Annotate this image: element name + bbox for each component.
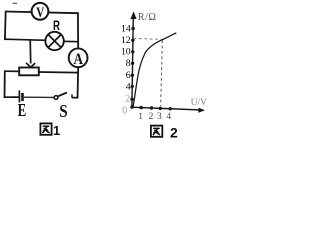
y axis arrow: [131, 11, 137, 19]
svg-text:2: 2: [125, 95, 130, 105]
svg-text:0: 0: [122, 105, 127, 116]
svg-text:6: 6: [126, 70, 131, 81]
svg-text:R: R: [53, 17, 60, 33]
caption 图1 glyph tu: [40, 123, 51, 134]
svg-text:A: A: [74, 51, 84, 68]
stray scan mark top left: [13, 3, 18, 5]
ammeter A: [69, 48, 88, 68]
dashed guide horizontal at R=12: [134, 38, 165, 39]
switch S contact: [71, 94, 73, 98]
svg-text:2: 2: [149, 112, 154, 122]
x axis arrow: [198, 108, 205, 113]
y tick dot 2: [130, 98, 133, 101]
voltmeter V: [32, 3, 49, 21]
svg-text:10: 10: [121, 47, 131, 58]
wire battery to switch: [24, 96, 54, 98]
svg-text:4: 4: [166, 112, 171, 122]
x tick dot 4: [169, 107, 172, 110]
caption 图2 glyph tu: [151, 126, 162, 137]
y tick dot 10: [131, 50, 134, 53]
origin dot: [130, 105, 133, 108]
wire bottom left: [5, 96, 19, 98]
wire top: [6, 12, 78, 14]
svg-text:R/Ω: R/Ω: [138, 12, 157, 23]
svg-text:U/V: U/V: [191, 98, 208, 108]
svg-text:4: 4: [126, 81, 131, 92]
x axis U: [132, 107, 201, 110]
y tick dot 8: [131, 62, 134, 65]
switch S pivot: [54, 96, 58, 100]
wire rheostat right to rail: [39, 71, 78, 74]
svg-text:V: V: [36, 5, 44, 21]
y tick dot 12: [131, 39, 134, 42]
wire right rail lower: [77, 67, 80, 98]
y axis R: [132, 14, 133, 107]
svg-text:12: 12: [121, 35, 131, 46]
switch S lever: [58, 93, 67, 97]
wire left lower: [4, 70, 6, 98]
dashed guide vertical at U=3: [161, 40, 163, 106]
rheostat box: [19, 68, 39, 76]
svg-text:1: 1: [53, 123, 60, 138]
wire lamp row left: [5, 39, 47, 40]
y tick dot 14: [131, 27, 134, 30]
svg-text:3: 3: [157, 112, 162, 122]
svg-text:2: 2: [170, 124, 178, 138]
x tick dot 3: [159, 107, 162, 110]
lamp R (circle with cross): [45, 32, 63, 50]
svg-text:14: 14: [121, 23, 131, 34]
wire right rail upper: [77, 12, 79, 48]
y tick dot 4: [131, 85, 134, 88]
svg-text:S: S: [59, 101, 67, 121]
rheostat slider arrowhead: [26, 63, 35, 67]
wire slider stem: [29, 40, 32, 64]
x tick dot 1: [140, 106, 143, 109]
svg-text:8: 8: [126, 58, 131, 69]
x tick dot 2: [150, 106, 153, 109]
curve R-U: [133, 33, 176, 107]
wire rheostat left: [5, 70, 19, 72]
wire left upper: [4, 11, 7, 40]
wire switch to corner: [72, 97, 78, 99]
battery plate long: [18, 90, 20, 102]
svg-text:1: 1: [138, 112, 143, 122]
battery plate short thick: [21, 93, 24, 101]
wire lamp to right rail: [64, 40, 78, 42]
y tick dot 6: [131, 74, 134, 77]
svg-text:E: E: [18, 100, 27, 120]
